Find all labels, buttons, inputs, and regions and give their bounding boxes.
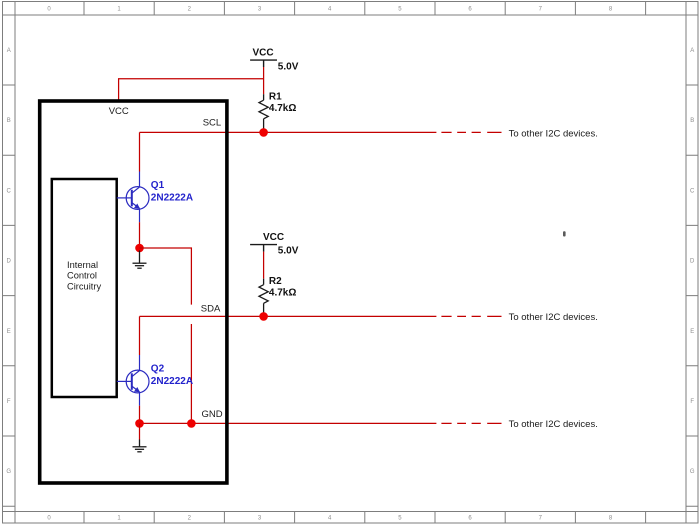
dashed continuation of GND bus [441,422,501,424]
svg-text:R2: R2 [269,276,282,287]
svg-text:E: E [7,329,11,335]
svg-text:5.0V: 5.0V [278,245,299,256]
svg-text:D: D [7,259,12,265]
svg-text:SDA: SDA [201,304,221,315]
wire: Q2 collector to SDA [139,316,141,355]
svg-text:C: C [7,188,12,194]
svg-text:A: A [690,48,694,54]
svg-text:B: B [690,118,694,124]
svg-text:GND: GND [201,409,222,420]
top ruler ticks [84,2,646,16]
wire: VCC symbol pin to R1 (red segment) [263,67,265,94]
svg-text:Q1: Q1 [151,180,165,191]
svg-text:2N2222A: 2N2222A [151,193,193,204]
svg-text:G: G [6,469,11,475]
svg-text:VCC: VCC [263,232,284,243]
ground symbol (under Q1) [133,251,147,269]
svg-text:Internal: Internal [67,260,98,270]
svg-text:Q2: Q2 [151,364,165,375]
resistor R2 [259,279,268,315]
svg-text:Control: Control [67,271,97,281]
svg-text:To other I2C devices.: To other I2C devices. [509,419,598,430]
wire: VCC rail from box to R1 top [119,79,264,100]
junction at Q1 emitter node [135,244,144,253]
svg-text:F: F [7,399,11,405]
wire: SDA net (box to bus) [140,315,437,317]
left ruler ticks [3,85,16,506]
svg-text:4.7kΩ: 4.7kΩ [269,103,296,114]
svg-text:A: A [7,48,11,54]
junction on SCL at R1 [259,128,268,137]
internal control circuitry label [67,260,101,292]
wire: GND junction down to ground symbol [139,423,141,439]
wire: VCC symbol to R2 [263,252,265,279]
svg-text:4.7kΩ: 4.7kΩ [269,288,296,299]
svg-text:C: C [690,188,695,194]
svg-text:D: D [690,259,695,265]
svg-text:5.0V: 5.0V [278,62,299,73]
wire: SCL net (box to bus) [140,131,437,133]
wire: Q1 emitter to ground junction [139,222,141,248]
junction on SDA at R2 [259,312,268,321]
svg-text:To other I2C devices.: To other I2C devices. [509,128,598,139]
svg-text:F: F [690,399,694,405]
resistor R1 [259,94,268,130]
svg-text:To other I2C devices.: To other I2C devices. [509,312,598,323]
junction at Q2 emitter on GND rail [135,419,144,428]
wire: Q2 emitter to GND rail [139,406,141,424]
internal control circuitry block [52,179,117,397]
svg-text:2N2222A: 2N2222A [151,376,193,387]
power symbol VCC (top) [250,60,277,67]
dashed continuation of SDA bus [441,315,501,317]
svg-text:E: E [690,329,694,335]
power symbol VCC (middle) [250,245,277,252]
svg-text:G: G [690,469,695,475]
right ruler ticks [686,85,698,506]
transistor Q2 (NPN 2N2222A) [117,355,149,406]
transistor Q1 (NPN 2N2222A) [117,172,149,223]
dashed continuation of SCL bus [441,131,501,133]
svg-text:B: B [7,118,11,124]
wire: continues below SDA crossing to GND rail [190,324,192,423]
svg-text:R1: R1 [269,92,282,103]
svg-text:VCC: VCC [252,48,273,59]
stray text artifact mark [563,231,566,236]
svg-text:Circuitry: Circuitry [67,282,101,292]
svg-text:SCL: SCL [203,118,221,129]
ground symbol (under Q2) [133,440,147,452]
wire: Q1 collector to SCL [139,132,141,171]
svg-text:VCC: VCC [109,106,129,117]
wire: GND net (box to bus) [140,422,437,424]
junction at GND rail and pulldown wire [187,419,196,428]
wire: Q1 emitter node over to GND rail [140,248,192,305]
bottom ruler ticks [84,512,646,524]
device outline box (I2C peripheral) [40,101,227,483]
